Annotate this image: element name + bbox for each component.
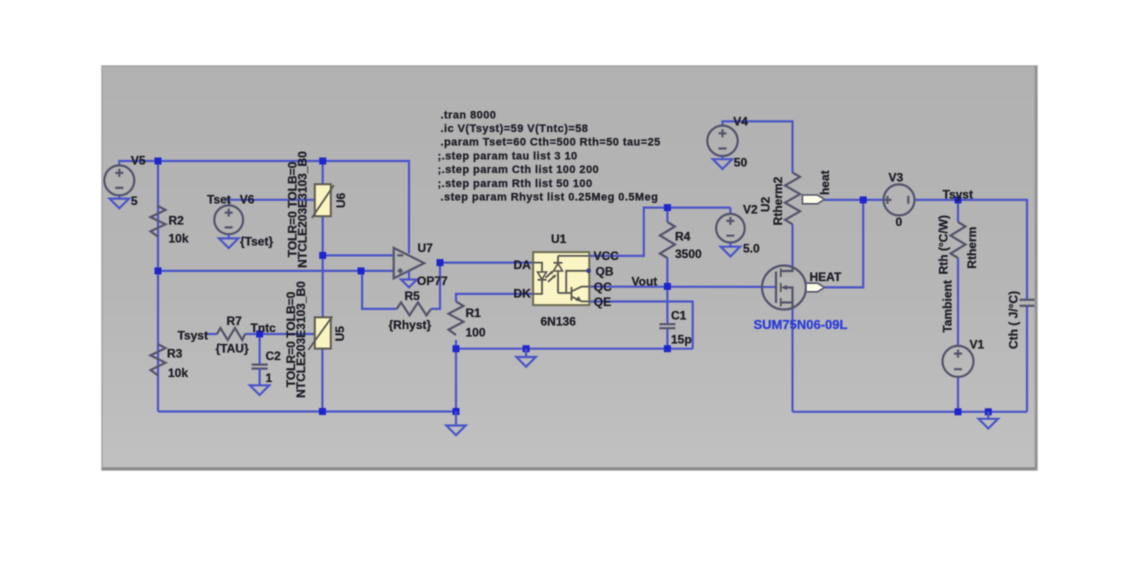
capacitor C2 [252, 365, 268, 385]
svg-text:15p: 15p [671, 333, 692, 347]
resistor R5 [397, 302, 431, 315]
node R1 bottom [453, 345, 460, 352]
wire Vout QC to mosfet gate [589, 286, 776, 288]
svg-text:5: 5 [131, 194, 138, 208]
svg-text:C1: C1 [671, 309, 687, 323]
svg-text:100: 100 [466, 326, 486, 340]
wire C2 top lead [259, 334, 261, 365]
svg-text:{Tset}: {Tset} [240, 235, 273, 249]
wire bottom-left rail [158, 410, 456, 412]
wire opamp output to U1 DA [440, 262, 533, 264]
resistor Rtherm [951, 222, 966, 258]
voltage source V4 [707, 126, 737, 156]
wire V1 bottom to right rail [957, 377, 959, 412]
wire left rail [157, 161, 159, 412]
svg-text:.tran 8000: .tran 8000 [441, 109, 497, 121]
wire R1 node down to left rail [455, 349, 457, 412]
wire V4 top to Rtherm2 [723, 121, 793, 172]
node Tsyst [955, 196, 962, 203]
wire opamp minus-input [323, 254, 394, 256]
flag heat [802, 195, 824, 204]
flag HEAT [806, 283, 825, 292]
svg-text:;.step param Cth list 100 200: ;.step param Cth list 100 200 [438, 164, 600, 176]
resistor R2 [151, 206, 166, 237]
svg-text:R3: R3 [167, 347, 183, 361]
wire top rail V5 to opamp V+ corner [119, 161, 409, 254]
voltage source V1 [943, 346, 974, 377]
wire C1 bottom lead [666, 328, 668, 349]
svg-text:5.0: 5.0 [743, 242, 760, 256]
svg-text:Cth ( J/°C): Cth ( J/°C) [1007, 291, 1021, 349]
svg-text:50: 50 [734, 156, 748, 170]
svg-text:NTCLE203E3103_B0: NTCLE203E3103_B0 [296, 151, 310, 268]
capacitor C1 [659, 324, 675, 328]
svg-text:V1: V1 [970, 338, 985, 352]
wire Cth bottom lead [1026, 306, 1028, 412]
wire heat node down to HEAT flag [825, 200, 864, 288]
wire mosfet source down to right rail [791, 309, 793, 412]
ground below V2 [721, 243, 740, 257]
svg-text:{Rhyst}: {Rhyst} [389, 318, 432, 332]
wire heat node left to flag [825, 199, 864, 201]
U1 base rail [558, 292, 572, 294]
svg-text:Tset: Tset [207, 193, 231, 207]
optocoupler U1 body [533, 252, 589, 305]
voltage source V2 [716, 214, 745, 243]
svg-text:heat: heat [818, 170, 832, 195]
schematic canvas [102, 66, 1037, 470]
wire U6 bottom to U5 top [322, 216, 324, 317]
svg-text:C2: C2 [266, 349, 282, 363]
svg-text:10k: 10k [169, 232, 189, 246]
node U5 bottom rail [319, 408, 326, 415]
node right rail ground tap [985, 408, 992, 415]
op-amp U7 [394, 248, 425, 279]
svg-text:VCC: VCC [594, 249, 620, 263]
svg-text:DA: DA [514, 258, 532, 272]
U1 photodiode [554, 256, 563, 293]
wire U6 top [322, 161, 324, 184]
node mid rail ground tap [523, 345, 530, 352]
ground below C2 [250, 385, 269, 395]
wire R1 bottom to mid rail [455, 340, 457, 349]
mosfet SUM75N06-09L [762, 266, 806, 310]
svg-text:0: 0 [896, 215, 903, 229]
U1 LED [533, 263, 546, 294]
wire V2 top stub [729, 208, 731, 214]
svg-text:OP77: OP77 [417, 274, 448, 288]
node V1 bottom rail [955, 408, 962, 415]
svg-text:V4: V4 [733, 115, 748, 129]
wire mid bottom rail [456, 348, 693, 350]
node left rail plus input [155, 267, 162, 274]
svg-text:V3: V3 [889, 171, 904, 185]
wire R4 top lead [666, 208, 668, 222]
svg-text:QC: QC [594, 280, 612, 294]
U1 VCC rail [558, 255, 589, 257]
svg-text:.param Tset=60 Cth=500 Rth=50: .param Tset=60 Cth=500 Rth=50 tau=25 [441, 137, 661, 149]
ground below V6 [219, 234, 238, 248]
wire Rtherm2 bottom to mosfet drain [791, 224, 793, 266]
svg-text:U5: U5 [333, 326, 347, 342]
node Tntc [256, 331, 263, 338]
svg-text:;.step param Rth list 50 100: ;.step param Rth list 50 100 [438, 178, 593, 190]
ground bottom-right rail [979, 412, 998, 429]
resistor R1 [449, 302, 464, 335]
wire U1 DK to R1 top [456, 294, 533, 302]
svg-text:Vout: Vout [632, 274, 658, 288]
svg-text:Rth (°C/W): Rth (°C/W) [937, 215, 951, 274]
svg-text:3500: 3500 [675, 247, 702, 261]
svg-text:QE: QE [594, 295, 611, 309]
svg-text:Tsyst: Tsyst [943, 188, 973, 202]
svg-text:R2: R2 [169, 214, 185, 228]
svg-text:U7: U7 [418, 241, 434, 255]
node opamp output [437, 259, 444, 266]
svg-text:R1: R1 [466, 306, 482, 320]
svg-text:V5: V5 [131, 154, 146, 168]
svg-text:R5: R5 [405, 289, 421, 303]
wire V6 to U6 T-pin [226, 200, 315, 206]
wire Tsyst lead to R7 [206, 333, 217, 335]
node R4 top [664, 204, 671, 211]
U1 QB branch [566, 271, 588, 293]
svg-text:QB: QB [596, 264, 614, 278]
svg-text:6N136: 6N136 [541, 315, 577, 329]
svg-text:Tsyst: Tsyst [178, 329, 208, 343]
ground below V4 [713, 156, 732, 169]
svg-text:Tntc: Tntc [251, 321, 277, 335]
svg-text:V6: V6 [240, 193, 255, 207]
node C1 bottom [664, 345, 671, 352]
node Vout [664, 283, 671, 290]
U1 QB pin dot [586, 268, 591, 273]
svg-text:R7: R7 [227, 314, 243, 328]
voltage source V6 [214, 205, 243, 234]
svg-text:V2: V2 [743, 203, 758, 217]
ground bottom-left corner [446, 412, 465, 436]
voltage source V5 [104, 165, 134, 195]
svg-text:Tambient: Tambient [941, 280, 955, 332]
svg-text:U6: U6 [334, 193, 348, 209]
wire V3 to Tsyst to Cth corner [915, 200, 1027, 300]
resistor R7 [217, 328, 245, 340]
wire Rtherm bottom to V1 top [957, 258, 959, 346]
capacitor Cth [1020, 300, 1035, 306]
resistor Rtherm2 [785, 173, 800, 225]
svg-text:.step param Rhyst list 0.25Meg: .step param Rhyst list 0.25Meg 0.5Meg [441, 192, 659, 204]
voltage source V3 [884, 184, 915, 215]
svg-text:SUM75N06-09L: SUM75N06-09L [754, 317, 848, 332]
node left rail bottom corner [453, 408, 460, 415]
resistor R4 [660, 222, 675, 258]
svg-text:.ic V(Tsyst)=59 V(Tntc)=58: .ic V(Tsyst)=59 V(Tntc)=58 [441, 123, 589, 135]
U1 LED light arrows [546, 271, 557, 282]
ground mid rail [516, 349, 535, 367]
ground below V5 [110, 195, 129, 208]
svg-text:10k: 10k [168, 366, 188, 380]
svg-text:DK: DK [514, 287, 532, 301]
wire U1 VCC to V2 plus rail [589, 208, 730, 256]
svg-text:;.step param tau list 3 10: ;.step param tau list 3 10 [438, 150, 578, 162]
svg-text:NTCLE203E3103_B0: NTCLE203E3103_B0 [294, 281, 308, 398]
ground below op-amp V- pin [401, 271, 417, 287]
svg-text:U1: U1 [551, 232, 567, 246]
svg-text:Rtherm2: Rtherm2 [771, 176, 785, 225]
wire feedback left from R5 up to plus-input [362, 271, 397, 309]
node heat [860, 196, 867, 203]
wire feedback down from output node [431, 263, 440, 309]
wire C1 top lead [666, 286, 668, 324]
U1 transistor [572, 287, 590, 302]
node minus input junction [319, 252, 326, 259]
directive text block [438, 109, 661, 203]
node V5 top rail [155, 158, 162, 165]
svg-text:1: 1 [266, 371, 273, 385]
wire heat node to V3 [863, 199, 883, 201]
wire opamp plus-input [158, 270, 394, 272]
svg-text:{TAU}: {TAU} [216, 342, 249, 356]
svg-text:R4: R4 [675, 230, 691, 244]
svg-text:HEAT: HEAT [810, 270, 842, 284]
wire U5 bottom [321, 349, 323, 412]
thermistor U6 [312, 184, 334, 218]
wire bottom-right rail [793, 411, 1028, 413]
wire Rtherm top lead [957, 200, 959, 222]
wire R4 bottom lead [666, 258, 668, 286]
svg-text:Rtherm: Rtherm [965, 227, 979, 269]
node feedback plus input [358, 267, 365, 274]
wire R7 to U5 T-pin node Tntc [245, 333, 315, 335]
resistor R3 [151, 344, 166, 375]
node U6 top [319, 158, 326, 165]
wire QE riser [589, 302, 692, 349]
thermistor U5 [308, 317, 332, 351]
